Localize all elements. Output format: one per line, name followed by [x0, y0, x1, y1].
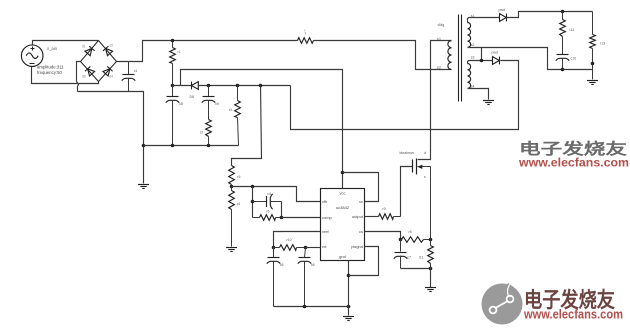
wire output bottom	[563, 69, 593, 71]
bridge rectifier diamond edges	[81, 41, 117, 82]
capacitor c10	[557, 54, 569, 56]
svg-text:r10: r10	[287, 238, 292, 242]
svg-text:d3: d3	[82, 75, 86, 79]
node divider tap	[259, 84, 263, 88]
svg-text:r12: r12	[569, 28, 574, 32]
diode d3 (left->bottom edge)	[85, 66, 95, 76]
node vcc rail / r1 bottom	[171, 84, 175, 88]
diode d4 (bottom->right edge)	[103, 66, 113, 76]
wire IC gnd pin down	[348, 261, 350, 316]
op-amp/controller U1 uc3842 box	[321, 189, 365, 261]
wire AC bottom to bridge bottom vertex	[32, 67, 99, 84]
resistor r8	[402, 237, 424, 243]
svg-text:c4: c4	[267, 192, 271, 196]
resistor r1	[172, 41, 174, 48]
node c9 top	[207, 84, 211, 88]
node r5/r4 junction	[230, 185, 234, 189]
node center tap	[480, 59, 484, 63]
node r8 right / mosfet source	[429, 238, 433, 242]
wire bridge right vertex to top rail	[117, 41, 173, 62]
wire pwd1 cathode to output + rail	[507, 12, 593, 18]
transformer core	[458, 15, 460, 102]
node c8 bottom	[171, 144, 175, 148]
wire output pin to r9	[365, 216, 379, 218]
svg-text:c7: c7	[407, 256, 411, 260]
svg-text:gnd: gnd	[339, 254, 346, 259]
resistor r7 (top rail)	[298, 38, 314, 44]
svg-text:amplitude:311: amplitude:311	[37, 65, 64, 70]
node r10 right	[304, 246, 308, 250]
svg-text:r2: r2	[200, 131, 203, 135]
wire divider junction to vfb pin	[232, 187, 321, 202]
node r10 left	[272, 246, 276, 250]
node DC- junction	[142, 144, 146, 148]
svg-text:7: 7	[305, 32, 307, 36]
capacitor c6	[305, 248, 306, 258]
svg-text:d1: d1	[82, 45, 86, 49]
wire pwgnd loop	[349, 247, 379, 276]
capacitor c9	[208, 86, 210, 97]
diode d1 (left->top edge)	[85, 46, 95, 56]
transformer secondary winding s3-s4	[468, 61, 493, 64]
svg-text:vref: vref	[322, 229, 330, 234]
svg-text:s2: s2	[471, 43, 475, 47]
capacitor c5	[273, 248, 275, 258]
node c4 left	[251, 200, 255, 204]
wire center tap s2-s3	[481, 48, 483, 61]
AC voltage source V1 (v_ain)	[21, 45, 43, 67]
svg-text:frequency:50: frequency:50	[37, 70, 62, 75]
wire vref pin to r10 left	[274, 232, 321, 248]
capacitor c8	[172, 86, 174, 97]
wire c4/r6 left vertical	[252, 187, 254, 218]
node r13 bottom	[591, 62, 595, 66]
svg-text:r1: r1	[178, 50, 181, 54]
svg-text:www.elecfans.com: www.elecfans.com	[518, 158, 629, 170]
diode D8 (cathode left)	[192, 82, 199, 90]
wire mid rail y=145	[144, 145, 239, 147]
wire s2 to output return	[468, 48, 563, 70]
resistor r6	[253, 217, 260, 219]
svg-text:pwd: pwd	[499, 8, 505, 12]
svg-text:c6: c6	[311, 263, 315, 267]
wire DC- rail to ground	[78, 92, 144, 184]
capacitor c4	[253, 201, 267, 203]
svg-text:r9: r9	[383, 207, 386, 211]
svg-text:d2: d2	[110, 44, 114, 48]
svg-text:r11: r11	[419, 256, 424, 260]
svg-text:vc: vc	[359, 199, 363, 204]
svg-text:c1: c1	[134, 69, 138, 73]
svg-text:d4: d4	[110, 75, 114, 79]
wire aux feedback run (right, down, across, up to pwd2)	[291, 61, 519, 130]
wire c7 bottom to r11 bottom	[401, 268, 431, 270]
node c4/r6 left top	[251, 185, 255, 189]
wire divider tap down to r5	[232, 86, 262, 166]
svg-text:v_ain: v_ain	[47, 46, 58, 51]
resistor r9	[379, 214, 394, 220]
svg-text:vfb: vfb	[322, 199, 328, 204]
svg-text:d: d	[424, 151, 426, 155]
capacitor C1	[128, 62, 130, 75]
node r2 bottom	[207, 144, 211, 148]
ground (secondary)	[483, 100, 494, 102]
svg-text:comp: comp	[322, 215, 333, 220]
svg-text:r5: r5	[237, 175, 240, 179]
ground (divider)	[226, 247, 237, 249]
svg-text:c9: c9	[215, 102, 219, 106]
svg-text:idealmos: idealmos	[400, 151, 415, 155]
svg-text:p2: p2	[437, 65, 441, 69]
node r6 right / comp	[280, 216, 284, 220]
wire top rail left of r7	[173, 40, 298, 42]
node r1 top	[171, 39, 175, 43]
watermark logo (elecfans)	[482, 284, 523, 325]
resistor r2	[206, 120, 212, 137]
ground (IC)	[343, 316, 354, 318]
ground (output)	[587, 80, 598, 82]
wire bridge left vertex to DC- rail (with hop over AC wire)	[77, 62, 81, 82]
wire transformer p1 to mosfet drain	[418, 41, 452, 160]
node r3 top	[236, 84, 240, 88]
svg-text:c8: c8	[179, 102, 183, 106]
node vcc branch to vc	[341, 171, 345, 175]
svg-text:www.elecfans.com: www.elecfans.com	[523, 307, 623, 322]
svg-text:D8: D8	[190, 95, 195, 99]
resistor r3	[237, 86, 239, 101]
node r8 left	[399, 238, 403, 242]
svg-text:s3: s3	[471, 56, 475, 60]
wire vcc node to D8 cathode	[173, 85, 192, 87]
svg-text:r13: r13	[600, 42, 605, 46]
node gnd rail	[347, 305, 351, 309]
svg-text:电子发烧友: 电子发烧友	[519, 139, 628, 158]
wire vcc branch to vc pin	[343, 173, 379, 202]
resistor r12	[562, 12, 564, 20]
diode pwd2	[493, 57, 500, 65]
wire r9 to mosfet gate	[401, 167, 413, 217]
wire bottom rail	[274, 306, 349, 308]
svg-text:pwgnd: pwgnd	[351, 244, 363, 249]
diode pwd1	[500, 14, 507, 22]
ground (source sense)	[425, 287, 436, 289]
transformer secondary winding s1-s2	[468, 18, 500, 23]
svg-text:s1: s1	[471, 14, 475, 18]
node pwgnd join	[347, 274, 351, 278]
node c10 bottom	[561, 68, 565, 72]
transistor Q1 idealmos	[416, 159, 418, 175]
svg-text:r3: r3	[229, 108, 232, 112]
resistor r5	[229, 166, 235, 185]
svg-text:vMg: vMg	[438, 23, 445, 27]
wire r11 bottom to ground	[430, 269, 432, 288]
svg-text:cs: cs	[359, 229, 363, 234]
svg-text:pwd: pwd	[492, 51, 498, 55]
wire s4 to ground	[468, 89, 489, 100]
wire top rail right of r7 to transformer p2	[314, 41, 452, 70]
svg-text:r6: r6	[267, 209, 270, 213]
wire rct pin	[306, 247, 321, 249]
svg-text:vcc: vcc	[340, 191, 346, 196]
diode d2 (top->right edge)	[103, 46, 113, 56]
svg-text:s: s	[424, 175, 426, 179]
wire AC top to bridge top vertex	[33, 41, 99, 45]
svg-text:c10: c10	[571, 57, 577, 61]
ground (input DC-)	[138, 184, 149, 186]
svg-text:p1: p1	[437, 37, 441, 41]
transformer primary winding p1-p2	[448, 41, 452, 70]
svg-text:uc3842: uc3842	[336, 205, 350, 210]
resistor r11	[430, 240, 432, 246]
wire c4 right vertical	[281, 202, 283, 218]
resistor r13	[592, 12, 594, 35]
resistor r10	[274, 247, 280, 249]
svg-text:r8: r8	[409, 230, 412, 234]
capacitor c7	[400, 240, 402, 252]
wire D8 anode to aux line	[199, 85, 291, 87]
wire cs pin	[365, 232, 401, 240]
node c6 bottom	[303, 305, 307, 309]
svg-text:r4: r4	[237, 202, 240, 206]
node r11 bottom	[429, 267, 433, 271]
svg-text:output: output	[352, 214, 364, 219]
wire vcc rail to IC vcc pin	[181, 70, 343, 189]
resistor r4	[231, 187, 233, 191]
wire comp pin	[282, 217, 321, 219]
svg-text:c5: c5	[280, 263, 284, 267]
node r12 top	[561, 10, 565, 14]
